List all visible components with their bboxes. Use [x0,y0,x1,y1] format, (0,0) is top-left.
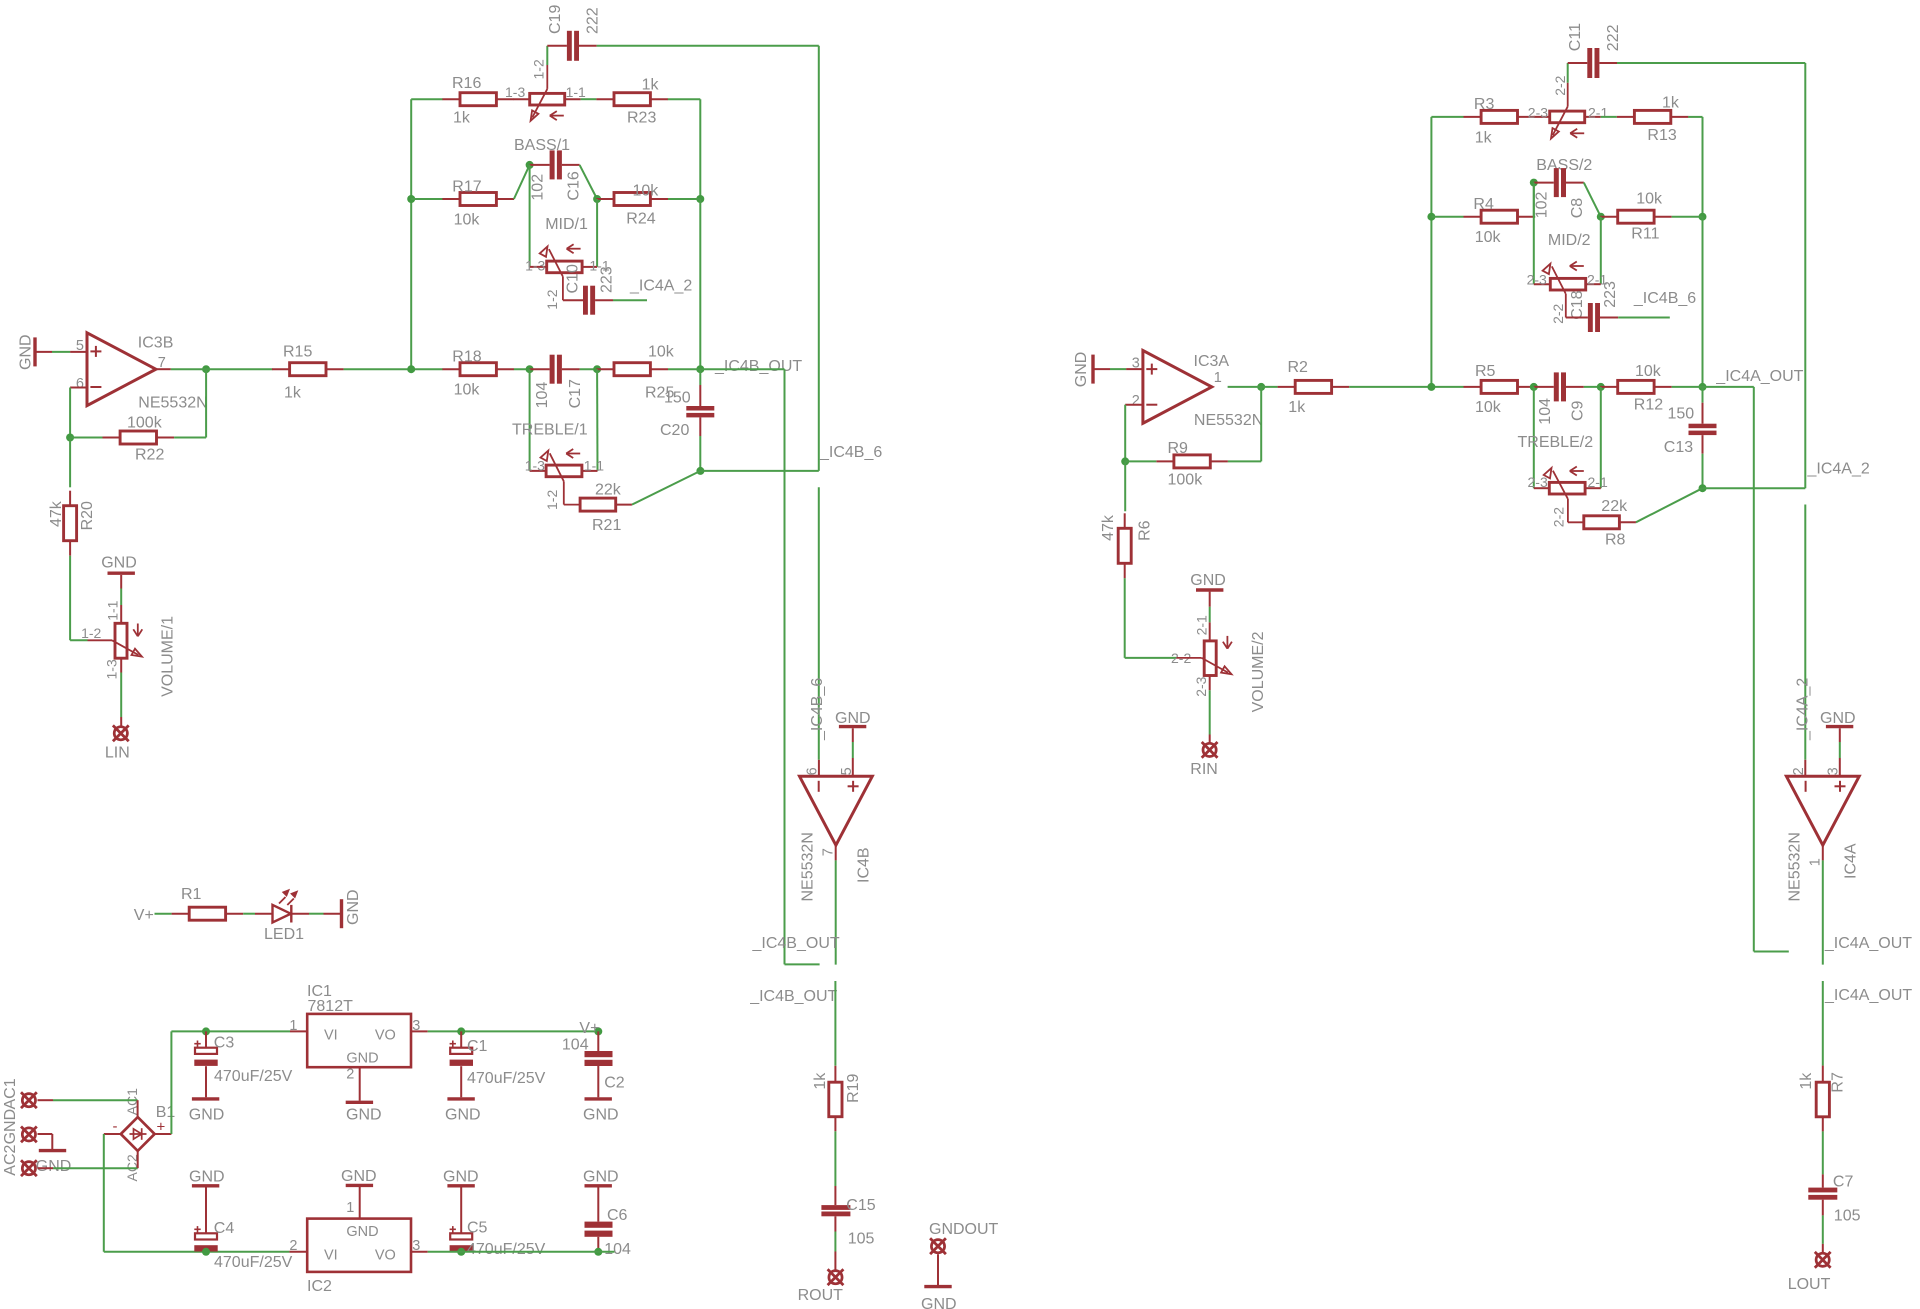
junction C5 bottom [457,1248,465,1256]
junction R9 left [1121,457,1129,465]
svg-text:10k: 10k [1636,190,1663,207]
svg-text:R16: R16 [452,75,481,92]
wire GND to IC4A pin3 [1839,742,1841,758]
ground GND at C4 [189,1169,225,1234]
wire R19 to C15 [834,1131,836,1186]
wire IC3A out row [1228,386,1278,388]
svg-text:R22: R22 [135,446,164,463]
svg-text:104: 104 [1537,398,1554,425]
capacitor C8 [1533,168,1586,218]
svg-text:GND: GND [17,334,34,370]
wire VOLUME/2 to RIN [1209,676,1211,744]
svg-text:2-2: 2-2 [1550,507,1566,527]
wire V+ to R1 [155,913,172,915]
connector pad ROUT [798,1269,844,1304]
svg-text:1k: 1k [1662,94,1680,111]
svg-text:1-1: 1-1 [566,84,586,100]
svg-text:1k: 1k [1475,130,1493,147]
net label _IC4B_OUT pin7 [752,935,840,952]
capacitor C16 [530,150,583,200]
svg-text:1k: 1k [1288,399,1306,416]
wire C8 to MID/2 [1533,183,1535,285]
svg-text:222: 222 [1605,24,1622,51]
svg-text:_IC4A_OUT: _IC4A_OUT [1824,935,1912,952]
wire to R3 [1431,116,1463,118]
wire R11 right [1672,217,1703,387]
junction C16 left [526,161,534,169]
wire C16 to MID/1 [529,165,531,267]
svg-text:V+: V+ [579,1020,599,1037]
pot TREBLE/2 wiper [1544,467,1584,523]
svg-text:1k: 1k [453,109,471,126]
ground GND at C1 [445,1066,481,1123]
svg-text:GND: GND [2,1109,19,1145]
svg-text:ROUT: ROUT [798,1287,844,1304]
svg-text:105: 105 [1834,1208,1861,1225]
wire GND to IC3A pin3 [1110,368,1126,370]
ground GND at IC3A +in [1073,352,1143,388]
junction R12 left [1597,383,1605,391]
net label V+ [579,1020,599,1037]
svg-text:3: 3 [1825,767,1841,775]
svg-text:C3: C3 [214,1034,235,1051]
svg-text:2-2: 2-2 [1550,303,1566,323]
wire R18 to C17 [514,368,530,370]
svg-text:GND: GND [1190,572,1226,589]
wire BASS/1 wiper to C19 [546,46,548,65]
svg-text:C10: C10 [565,264,582,293]
svg-text:AC2: AC2 [2,1144,19,1175]
junction R25 left [593,365,601,373]
svg-text:R9: R9 [1168,440,1189,457]
capacitor C18 [1566,303,1618,332]
svg-text:GND: GND [1820,710,1856,727]
wire C15 to ROUT [834,1232,836,1270]
resistor R7 [1798,1066,1847,1132]
svg-text:C17: C17 [567,379,584,408]
pot MID/2 wiper [1543,262,1584,318]
connector pad GNDAC [2,1109,37,1145]
wire GND to IC4B pin5 [852,742,854,758]
wire to R4 [1431,216,1463,218]
wire R11jct to MID/2 [1600,217,1602,285]
net label _IC4A_OUT lower [1824,987,1912,1004]
ground GND at GNDOUT [921,1254,957,1309]
svg-text:_IC4A_OUT: _IC4A_OUT [1715,368,1803,385]
svg-text:NE5532N: NE5532N [1194,412,1263,429]
wire BASS/2 wiper to C11 [1567,63,1569,83]
capacitor C5 [450,1219,546,1258]
wire C8 diagonal [1584,183,1601,217]
svg-text:100k: 100k [127,414,163,431]
resistor R25 [596,343,674,401]
wire to R17 [411,198,442,200]
svg-text:1-3: 1-3 [505,84,525,100]
svg-text:R18: R18 [452,348,481,365]
svg-text:_IC4B_6: _IC4B_6 [809,678,826,741]
svg-text:MID/2: MID/2 [1548,232,1591,249]
capacitor C4 [194,1220,292,1271]
junction R24 left [593,195,601,203]
svg-text:R11: R11 [1631,225,1659,242]
pot TREBLE/1 [512,421,604,510]
junction main row R [1427,383,1435,391]
connector pad AC2 [2,1144,37,1176]
resistor R8 [1584,498,1636,549]
wire R4 to C8 junction [1534,183,1535,217]
net label _IC4B_6 [819,444,882,461]
svg-text:_IC4A_2: _IC4A_2 [1807,460,1870,477]
resistor R3 [1464,96,1536,147]
svg-text:1-2: 1-2 [544,490,560,510]
junction C3 top [202,1027,210,1035]
wire C20 to R21 diagonal [632,471,701,505]
wire net _IC4A_2 stub [613,299,647,301]
svg-text:V+: V+ [134,907,154,924]
capacitor C17 [530,355,584,409]
svg-text:1-2: 1-2 [81,625,101,641]
svg-text:-: - [113,1118,118,1135]
svg-text:C11: C11 [1567,23,1584,51]
svg-text:223: 223 [1602,281,1619,308]
svg-text:102: 102 [1533,192,1550,219]
pot VOLUME/2 wiper [1177,636,1232,674]
resistor R15 [272,343,344,401]
svg-text:RIN: RIN [1190,761,1218,778]
wire B1- down [104,1134,290,1252]
svg-text:1-3: 1-3 [104,659,120,679]
svg-text:GND: GND [583,1169,619,1186]
svg-text:LIN: LIN [105,744,130,761]
wire net _IC4A_2 to pin2 [1804,505,1806,760]
wire R22 right [174,369,206,437]
svg-text:GND: GND [921,1296,957,1309]
resistor R6 [1100,513,1153,578]
wire GND to VOLUME/2 pin2-1 [1209,607,1211,623]
wire R5 to C9 [1534,386,1535,388]
net label V+ at R1 [134,907,154,924]
svg-text:222: 222 [585,7,602,34]
svg-text:C5: C5 [467,1219,488,1236]
svg-text:R13: R13 [1647,127,1676,144]
svg-text:223: 223 [598,266,615,293]
svg-text:470uF/25V: 470uF/25V [214,1254,293,1271]
svg-text:VI: VI [324,1247,338,1263]
svg-text:C20: C20 [660,422,689,439]
pot MID/1 wiper [540,244,581,300]
svg-text:1-2: 1-2 [531,59,547,79]
wire net _IC4B_6 mid [700,470,818,472]
svg-text:1: 1 [1808,858,1824,866]
capacitor C10 [563,286,613,315]
capacitor C9 [1534,372,1587,424]
svg-text:LED1: LED1 [264,926,304,943]
svg-text:NE5532N: NE5532N [1787,832,1804,901]
svg-text:IC2: IC2 [307,1278,332,1295]
svg-text:10k: 10k [454,381,481,398]
resistor R22 [103,414,175,463]
svg-text:2: 2 [1791,767,1807,775]
resistor R1 [172,886,244,920]
junction IC3B out [202,365,210,373]
junction C8 left [1530,179,1538,187]
resistor R4 [1464,196,1536,246]
ground GND at IC1 pin2 [346,1067,382,1123]
junction IC3A out [1257,383,1265,391]
svg-text:VOLUME/2: VOLUME/2 [1250,631,1267,712]
svg-text:C13: C13 [1664,439,1693,456]
connector pad LIN [105,725,130,761]
wire R9jct to R6 [1124,461,1126,511]
wire net _IC4B_OUT to R19 [834,981,836,1066]
resistor R24 [596,182,668,227]
capacitor C20 [660,369,714,471]
pot VOLUME/1 wiper [88,624,143,657]
wire R9 right [1228,387,1261,462]
wire net _IC4B_OUT [668,369,820,964]
net label _IC4B_OUT lower [749,988,837,1005]
svg-text:10k: 10k [1635,363,1662,380]
svg-text:GND: GND [189,1106,225,1123]
pot BASS/1 wiper [531,65,564,121]
svg-text:C15: C15 [846,1197,875,1214]
net label _IC4A_OUT pin1 [1824,935,1912,952]
svg-text:1k: 1k [284,384,302,401]
net label _IC4B_6 vertical [809,678,826,741]
svg-text:C8: C8 [1569,198,1586,219]
svg-text:IC3B: IC3B [138,335,174,352]
svg-text:MID/1: MID/1 [545,216,588,233]
svg-text:C19: C19 [547,5,564,34]
wire net _IC4A_2 mid [1703,487,1806,489]
svg-text:GND: GND [345,889,362,925]
svg-text:2: 2 [346,1066,354,1082]
svg-text:GND: GND [583,1106,619,1123]
op-amp IC4B [800,758,873,902]
pot VOLUME/1 [81,600,176,697]
svg-text:R4: R4 [1473,196,1494,213]
svg-text:GND: GND [443,1169,479,1186]
svg-text:_IC4B_OUT: _IC4B_OUT [752,935,840,952]
svg-text:470uF/25V: 470uF/25V [467,1070,546,1087]
svg-text:2-1: 2-1 [1193,615,1209,635]
svg-text:_IC4B_6: _IC4B_6 [819,444,882,461]
svg-text:47k: 47k [48,500,65,527]
svg-text:1k: 1k [1798,1072,1815,1090]
svg-text:NE5532N: NE5532N [800,832,817,901]
bridge rectifier B1 [113,1088,176,1182]
svg-text:2-3: 2-3 [1527,271,1547,287]
junction C17 left [526,365,534,373]
svg-text:104: 104 [562,1037,589,1054]
svg-text:R1: R1 [181,886,202,903]
svg-text:1: 1 [346,1200,354,1216]
wire IC4A out [1822,845,1824,964]
svg-text:1-2: 1-2 [544,289,560,309]
svg-text:1: 1 [1214,370,1222,386]
junction C1 top [457,1027,465,1035]
wire R2 to R5 [1349,386,1463,388]
connector pad AC1 [2,1078,37,1109]
svg-text:22k: 22k [595,482,622,499]
svg-text:C18: C18 [1569,290,1586,319]
wire BASS/2 to R13 [1601,116,1617,118]
svg-text:_IC4B_OUT: _IC4B_OUT [749,988,837,1005]
wire R22jct to R20 [69,438,71,488]
svg-text:1-1: 1-1 [584,458,604,474]
svg-text:GND: GND [36,1158,72,1175]
svg-text:R20: R20 [79,501,96,530]
svg-text:2-1: 2-1 [1588,105,1608,121]
svg-text:2-3: 2-3 [1193,676,1209,696]
svg-text:150: 150 [664,389,691,406]
pot MID/1 [525,216,615,310]
svg-text:AC1: AC1 [2,1078,19,1109]
wire AC2 to B1 [38,1151,138,1168]
ground GND at C5 [443,1169,479,1234]
wire LED1 to GND [309,913,324,915]
svg-text:TREBLE/1: TREBLE/1 [512,421,588,438]
svg-text:GND: GND [346,1106,382,1123]
wire IC3A pin2 [1125,405,1143,462]
svg-text:GND: GND [341,1168,377,1185]
connector pad GNDOUT [929,1221,999,1254]
svg-text:1k: 1k [642,77,660,94]
svg-text:_IC4A_2: _IC4A_2 [629,277,692,294]
wire C9R to TREBLE/2 [1600,387,1602,488]
capacitor C19 [547,5,602,61]
svg-text:6: 6 [76,376,84,392]
wire C7 to LOUT [1822,1215,1824,1252]
svg-text:VO: VO [375,1027,396,1043]
svg-text:R5: R5 [1475,363,1496,380]
svg-text:100k: 100k [1168,471,1204,488]
svg-text:2: 2 [1132,393,1140,409]
wire net _IC4B_6 stub R [1618,317,1670,319]
svg-text:10k: 10k [633,182,660,199]
wire GND to VOLUME/1 pin1-1 [120,589,122,606]
wire net _IC4A_OUT to R7 [1822,981,1824,1066]
wire net N$1 vertical left [410,99,412,369]
wire IC4B out [835,845,837,964]
svg-text:2-3: 2-3 [1528,105,1548,121]
wire R24jct to MID/1 [596,199,598,267]
svg-text:NE5532N: NE5532N [138,394,207,411]
wire R13 to vertical [1688,117,1702,217]
wire IC2 out [428,1251,615,1253]
resistor R20 [48,491,96,556]
svg-text:VI: VI [324,1027,338,1043]
wire C16 diagonal [580,165,598,199]
svg-text:470uF/25V: 470uF/25V [214,1068,293,1085]
net label _IC4A_2 [1807,460,1870,477]
svg-text:R24: R24 [626,211,655,228]
wire BASS/1 to R23 [581,98,597,100]
wire B1+ to IC1 [155,1031,290,1134]
capacitor C11 [1567,23,1622,78]
svg-text:1-3: 1-3 [525,258,545,274]
wire net _IC4A_OUT [1672,387,1789,952]
svg-text:GND: GND [445,1106,481,1123]
svg-text:R6: R6 [1137,520,1154,541]
svg-text:10k: 10k [1475,399,1502,416]
ground GND at C3 [189,1066,225,1123]
capacitor C7 [1808,1173,1860,1224]
junction R24 right [696,195,704,203]
svg-text:_IC4B_6: _IC4B_6 [1633,290,1696,307]
junction R11 right [1699,213,1707,221]
wire IC3B pin6 [70,388,87,438]
svg-text:104: 104 [534,382,551,409]
capacitor C6 [585,1187,631,1257]
svg-text:GND: GND [346,1224,378,1240]
wire net N$1 to R16 [411,98,442,100]
wire net _IC4A_2 top [1617,63,1805,488]
svg-text:7: 7 [821,848,837,856]
ground GND at C2 [583,1099,619,1124]
wire C9 to R12 [1584,386,1601,388]
wire C17R to TREBLE/1 [596,369,598,471]
junction C2 top V+ [594,1027,602,1035]
svg-text:R12: R12 [1634,397,1663,414]
svg-text:VOLUME/1: VOLUME/1 [159,616,176,697]
svg-text:_IC4A_OUT: _IC4A_OUT [1824,987,1912,1004]
wire R6 to VOLUME/2 [1125,578,1177,658]
svg-text:GND: GND [101,555,137,572]
svg-text:1-1: 1-1 [104,600,120,620]
svg-text:C4: C4 [214,1220,235,1237]
svg-text:IC4A: IC4A [1843,843,1860,879]
connector pad RIN [1190,742,1218,778]
svg-text:150: 150 [1668,405,1695,422]
pot BASS/1 section 1-3/1-1 [505,59,586,154]
svg-text:10k: 10k [648,343,675,360]
svg-text:GND: GND [346,1050,378,1066]
pot TREBLE/1 wiper [541,449,581,505]
svg-text:7812T: 7812T [308,998,354,1015]
svg-text:2-2: 2-2 [1552,75,1568,95]
svg-text:R8: R8 [1605,532,1626,549]
svg-text:5: 5 [839,767,855,775]
wire R20 to VOLUME/1 [70,556,87,641]
svg-text:R23: R23 [627,109,656,126]
pot TREBLE/2 [1518,434,1608,527]
resistor R19 [812,1066,862,1132]
pot BASS/2 section [1528,75,1609,174]
junction C9 left [1530,383,1538,391]
wire C13 to R8 diagonal [1636,488,1703,522]
svg-text:+: + [157,1119,166,1136]
resistor R17 [442,178,514,228]
svg-text:GND: GND [835,710,871,727]
op-amp IC3A [1132,351,1263,430]
svg-text:R17: R17 [452,178,481,195]
svg-text:C1: C1 [467,1038,488,1055]
svg-text:C6: C6 [607,1207,628,1224]
pot MID/2 [1527,232,1620,324]
resistor R12 [1600,363,1672,414]
svg-text:470uF/25V: 470uF/25V [467,1241,546,1258]
ground GND at IC4A pin3 [1820,710,1856,742]
junction C4 bottom [202,1248,210,1256]
junction R25 right [696,365,704,373]
svg-text:22k: 22k [1601,498,1628,515]
resistor R5 [1464,363,1536,416]
svg-text:105: 105 [848,1231,875,1248]
wire R22 left [70,437,102,439]
junction R17 left [407,195,415,203]
resistor R9 [1156,440,1228,488]
